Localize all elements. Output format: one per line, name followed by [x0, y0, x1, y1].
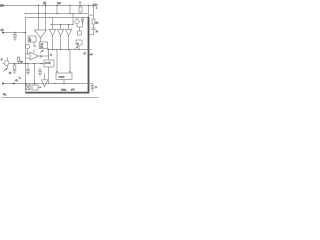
wire rail1 down to box right edge	[88, 6, 90, 18]
junction 70,13	[69, 13, 70, 14]
junction 73,13	[72, 13, 73, 14]
long vertical x48.5	[48, 50, 50, 61]
capacitor C2 external	[92, 28, 96, 35]
junction 34.5,83.5	[34, 83, 35, 84]
junction 45,13	[45, 13, 46, 14]
pin stub right y15	[89, 14, 93, 16]
capacitor C3 below y63.5 at x28	[26, 64, 30, 73]
svg-text:Fig: Fig	[3, 94, 7, 96]
wire drop x38 rail1 to triangle top	[38, 6, 40, 31]
svg-text:R9: R9	[20, 62, 22, 64]
ground under C3	[26, 73, 30, 76]
junction 60.5,49.5	[60, 49, 61, 50]
opamp triangle A2 right-pointing	[30, 52, 39, 60]
junction 70,5	[69, 5, 70, 6]
crystal X1	[26, 85, 31, 90]
junction 18.5,63.5	[18, 63, 19, 64]
svg-text:clk: clk	[15, 80, 19, 82]
junction 48.5,56	[48, 55, 49, 56]
junction 70,49.5	[69, 49, 70, 50]
transistor marks mid-left	[34, 42, 36, 48]
junction 48.5,83.5	[48, 83, 49, 84]
junction 79,49.5	[78, 49, 79, 50]
wire top rail 2	[25, 13, 89, 15]
wire box C down x48.5	[48, 67, 50, 84]
wire block down x79	[78, 45, 80, 50]
svg-text:AC: AC	[1, 28, 4, 31]
svg-text:osc div: osc div	[45, 62, 51, 64]
junction 25.5,83.5	[25, 83, 26, 84]
power arrow up at x80	[79, 1, 81, 6]
arrow below box B	[40, 50, 44, 54]
wire drop x70 y49.5 to block F	[69, 50, 71, 74]
junction bus 73	[72, 24, 73, 25]
wire A1 apex to block B	[40, 38, 42, 42]
svg-text:4MHz: 4MHz	[61, 89, 66, 91]
wire U2a out down	[52, 36, 54, 50]
block box right inner	[76, 40, 82, 45]
junction 48.5,49.5	[48, 49, 49, 50]
svg-text:R1: R1	[43, 2, 47, 5]
wire top rail VCC	[5, 5, 94, 7]
svg-text:IN: IN	[0, 5, 3, 7]
capacitor C1	[13, 33, 17, 39]
junction 52.5,49.5	[52, 49, 53, 50]
triangle E down-pointing	[41, 80, 47, 87]
resistor R2 between rails at x80	[79, 7, 82, 12]
svg-text:out: out	[90, 53, 93, 56]
junction bus 52.5	[52, 24, 53, 25]
svg-text:ref: ref	[29, 39, 32, 42]
svg-text:1k: 1k	[96, 22, 99, 24]
svg-text:1: 1	[96, 8, 97, 10]
arrow diag right inner	[75, 46, 79, 50]
wire A2 input	[26, 53, 31, 55]
riser x73 rail2 to bus	[72, 14, 74, 25]
pin stub right y34.7	[89, 34, 93, 36]
svg-text:+5V: +5V	[92, 3, 97, 7]
wire R3 to C2	[93, 24, 95, 28]
wire bottom-left y63.5	[9, 63, 44, 65]
svg-text:Vcc: Vcc	[57, 3, 62, 5]
comparator triangle U2a	[49, 25, 55, 36]
wire input y32	[5, 32, 26, 34]
bottom frame line	[2, 96, 99, 98]
internal bus y24.5	[50, 24, 73, 26]
arrow PNP emitter	[4, 68, 8, 72]
vertical x34.5 y63.5 to rail	[34, 64, 36, 86]
capacitor C4 bottom right external	[90, 84, 95, 89]
ground under C1	[13, 38, 17, 41]
junction 70,72	[69, 71, 70, 72]
junction 68.5,49.5	[68, 49, 69, 50]
resistor R6 vertical x18.5	[17, 57, 19, 64]
block box B under A1	[40, 42, 48, 49]
wire drop x70 rail1 to rail2	[69, 6, 71, 14]
terminal VIN top-left	[0, 4, 5, 7]
transistor Q2 bottom left	[3, 58, 9, 69]
svg-text:fo: fo	[19, 78, 21, 80]
svg-text:gnd: gnd	[71, 89, 74, 91]
junction 57,72	[56, 71, 57, 72]
svg-text:st: st	[77, 42, 79, 45]
block small right inner upper	[78, 31, 82, 35]
junction 64,83.5	[63, 83, 64, 84]
junction 38,5	[38, 5, 39, 6]
junction 41,63.5	[40, 63, 41, 64]
wire bottom y83.5	[5, 83, 89, 85]
svg-text:1k: 1k	[9, 73, 12, 75]
wire A2 out	[39, 55, 49, 57]
wire I1 down	[27, 49, 29, 54]
comparator triangle U2b	[57, 25, 63, 36]
wire triangle E up	[44, 74, 46, 80]
wire Q1 D1 bottoms join y27	[77, 26, 83, 28]
junction 55,83.5	[54, 83, 55, 84]
ground under C5	[38, 73, 42, 76]
capacitor C5 at x40	[38, 68, 42, 74]
junction 25.5,63.5	[25, 63, 26, 64]
input terminal left mid	[1, 28, 6, 33]
wire U2c out down	[68, 36, 70, 50]
svg-text:output: output	[59, 75, 65, 78]
junction 80,5	[79, 5, 80, 6]
svg-text:Q: Q	[1, 59, 3, 61]
wire mid y49.5	[47, 49, 89, 51]
junction 14.5,63.5	[14, 63, 15, 64]
output block box F	[56, 73, 72, 80]
diode D1 inner top right	[81, 18, 84, 28]
current source circle I1	[25, 44, 29, 48]
junction 25.5,32	[25, 32, 26, 33]
wire U2b out down	[60, 36, 62, 50]
junction 28,63.5	[27, 63, 28, 64]
arrow on bottom wire	[13, 82, 16, 84]
wire box F down x64	[63, 80, 65, 84]
junction 57,13	[56, 13, 57, 14]
IC box U1 right and bottom thick edges	[26, 17, 89, 93]
svg-text:1n: 1n	[96, 31, 99, 33]
svg-text:log: log	[41, 46, 43, 48]
wire A2 input 2	[26, 57, 31, 59]
resistor R3 external	[92, 19, 95, 24]
block box OSC	[32, 85, 38, 90]
wire rail1 down x93.5	[93, 6, 95, 20]
resistor R4 vertical	[13, 64, 16, 72]
ground under R4	[13, 71, 17, 74]
junction bus 68.5	[68, 24, 69, 25]
ground under C4	[91, 89, 95, 92]
junction 15,32	[14, 32, 15, 33]
svg-text:in: in	[41, 56, 42, 58]
block box C	[44, 60, 54, 67]
wire OSC to triangle E	[38, 86, 41, 88]
terminal bottom-left	[2, 80, 18, 85]
svg-text:fs: fs	[51, 55, 53, 57]
junction 38,13	[38, 13, 39, 14]
pin stub right y49.5	[89, 49, 92, 51]
feedback tick above A2	[33, 50, 35, 53]
svg-text:C: C	[95, 87, 97, 89]
junction 80,13	[79, 13, 80, 14]
junction 45,5	[45, 5, 46, 6]
block box REF left	[28, 36, 36, 42]
IC box U1 left and top edges	[26, 18, 89, 93]
svg-text:ck: ck	[84, 53, 87, 55]
transistor Q1 inner top right	[75, 18, 79, 28]
junction 57,5	[56, 5, 57, 6]
wire drop x45 rail1 to triangle top	[45, 6, 47, 31]
arrow into box C	[42, 63, 44, 65]
comparator triangle U2c	[65, 25, 71, 36]
wire down from y27	[79, 27, 81, 31]
buffer triangle A1 wide down-pointing	[35, 30, 47, 38]
junction 28,53.8	[27, 53, 28, 54]
junction 88,5	[88, 5, 89, 6]
junction 33.5,63.5	[33, 63, 34, 64]
wire drop x57 rail1 to rail2	[56, 6, 58, 14]
wire drop x57 y49.5 to block F	[56, 50, 58, 74]
junction 57,49.5	[56, 49, 57, 50]
junction bus 60.5	[60, 24, 61, 25]
stub x52.5 box top to bus	[52, 18, 54, 25]
